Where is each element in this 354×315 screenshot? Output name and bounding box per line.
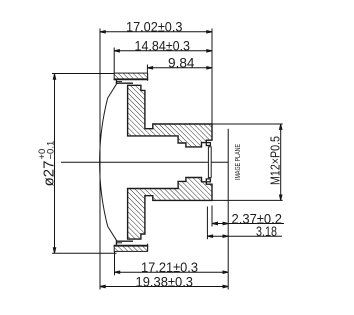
label IMAGE PLANE (vertical): [233, 144, 242, 180]
svg-text:17.21±0.3: 17.21±0.3: [141, 260, 198, 275]
centerline (optical axis): [61, 161, 228, 163]
svg-text:9.84: 9.84: [168, 56, 195, 71]
rear lip tab lower: [206, 179, 210, 182]
retainer lip step upper: [116, 79, 133, 83]
wire: extension line x=114.2 upper (refs 14.84): [113, 48, 115, 74]
svg-text:IMAGE PLANE: IMAGE PLANE: [233, 144, 242, 180]
dimension 14.84±0.3: [114, 50, 212, 52]
dimension 2.37±0.2: [212, 222, 284, 224]
wire: extension line x=147.4 (refs 9.84): [146, 65, 148, 73]
lens edge cone upper: [108, 83, 117, 98]
svg-text:17.02±0.3: 17.02±0.3: [126, 20, 183, 35]
rear lip tab upper: [206, 143, 210, 146]
retainer ring lower strip: [114, 244, 149, 252]
wire: extension line x=212 upper (rear face ref): [211, 29, 213, 124]
barrel lower block (hatched cross-section): [128, 178, 212, 240]
lens front arc: [100, 98, 108, 226]
lens edge cone lower: [108, 226, 117, 241]
svg-text:3.18: 3.18: [256, 224, 277, 239]
wire: M12 bottom extension: [212, 199, 283, 201]
dimension 17.21±0.3: [115, 271, 229, 273]
svg-text:ø27: ø27: [41, 161, 58, 187]
wire: extension line x=100 (lens vertex, refs 17.02 & 19.38): [99, 29, 101, 290]
wire: ø27 bottom extension: [52, 252, 117, 254]
retainer ring upper strip: [114, 73, 149, 81]
node: IMAGE PLANE line x=228.2: [227, 129, 229, 290]
wire: ø27 top extension: [52, 73, 117, 75]
IR filter glass: [208, 147, 211, 178]
dimension ø27 +0/-0.1 (vertical): [53, 74, 55, 253]
wire: extension line x=207.4 (filter seat ref, 3.18): [206, 207, 208, 240]
dimension 3.18: [207, 235, 282, 237]
dimension 9.84: [147, 67, 212, 69]
svg-text:19.38±0.3: 19.38±0.3: [136, 274, 194, 289]
svg-text:14.84±0.3: 14.84±0.3: [135, 39, 191, 54]
dimension 19.38±0.3: [100, 285, 228, 287]
wire: extension line x=212 lower (rear face ref, 2.37): [211, 206, 213, 227]
svg-text:−0.1: −0.1: [46, 141, 57, 160]
retainer lip step lower: [116, 241, 133, 246]
barrel upper block (hatched cross-section): [128, 85, 212, 147]
svg-text:M12×P0.5: M12×P0.5: [268, 136, 283, 185]
dimension M12xP0.5 (vertical): [280, 124, 282, 200]
wire: extension line x=114.5 lower (refs 17.21): [114, 251, 116, 275]
wire: M12 top extension: [212, 123, 283, 125]
dimension 17.02±0.3: [100, 31, 212, 33]
